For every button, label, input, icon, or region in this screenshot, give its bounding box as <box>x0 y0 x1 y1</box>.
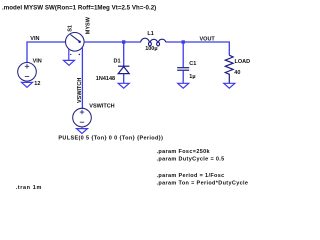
svg-text:VSWITCH: VSWITCH <box>77 78 83 103</box>
svg-text:VIN: VIN <box>33 58 42 64</box>
svg-text:LOAD: LOAD <box>235 59 251 65</box>
svg-text:100µ: 100µ <box>145 46 157 52</box>
diode D1 <box>118 66 129 73</box>
svg-text:1µ: 1µ <box>189 74 195 80</box>
minus mark <box>70 53 71 55</box>
inductor L1 <box>141 38 166 46</box>
resistor LOAD <box>225 55 233 83</box>
svg-text:.model MYSW SW(Ron=1 Roff=1Meg: .model MYSW SW(Ron=1 Roff=1Meg Vt=2.5 Vh… <box>2 4 156 11</box>
svg-text:S1: S1 <box>67 25 73 32</box>
svg-text:D1: D1 <box>114 58 121 64</box>
ground under switch <box>64 60 75 65</box>
svg-text:.param Period = 1/Fosc: .param Period = 1/Fosc <box>157 173 225 179</box>
svg-text:VIN: VIN <box>30 36 39 42</box>
wire down to D1 <box>123 42 125 66</box>
svg-text:PULSE(0 5 {Ton} 0 0 {Ton} {Per: PULSE(0 5 {Ton} 0 0 {Ton} {Period}) <box>58 136 163 142</box>
ground under D1 <box>118 83 129 88</box>
svg-text:.param Fosc=250k: .param Fosc=250k <box>157 149 211 155</box>
svg-text:.param Ton = Period*DutyCycle: .param Ton = Period*DutyCycle <box>157 181 249 187</box>
junction node VOUT <box>182 40 185 43</box>
svg-text:C1: C1 <box>189 61 196 67</box>
control pin - (left stub) <box>68 49 70 60</box>
junction node at D1 <box>122 40 125 43</box>
wire down to C1 <box>182 42 184 67</box>
ground under VIN <box>22 81 33 87</box>
svg-text:VSWITCH: VSWITCH <box>89 104 114 110</box>
plus mark <box>79 54 80 55</box>
pulse source VSWITCH <box>73 108 92 127</box>
svg-text:VOUT: VOUT <box>200 37 216 43</box>
wire switch to inductor <box>84 41 141 43</box>
wire D1 to ground <box>123 74 125 84</box>
svg-text:40: 40 <box>234 70 240 76</box>
svg-text:1N4148: 1N4148 <box>96 76 115 82</box>
wire inductor to load corner <box>166 42 229 55</box>
svg-text:12: 12 <box>34 81 40 87</box>
capacitor C1 <box>177 68 189 71</box>
wire C1 to ground <box>182 70 184 83</box>
svg-text:L1: L1 <box>147 31 153 37</box>
control pin + (right stub) <box>81 47 83 109</box>
svg-text:.param DutyCycle = 0.5: .param DutyCycle = 0.5 <box>157 157 225 163</box>
wire VIN top rail <box>27 42 66 63</box>
voltage source VIN <box>18 63 37 82</box>
svg-text:MYSW: MYSW <box>85 16 91 34</box>
ground under C1 <box>178 83 189 88</box>
lever <box>70 35 79 42</box>
ground under LOAD <box>224 83 235 88</box>
pivot dot <box>78 41 81 44</box>
svg-text:.tran 1m: .tran 1m <box>16 185 42 191</box>
ground under pulse source <box>77 127 88 134</box>
switch S1 <box>66 33 85 109</box>
